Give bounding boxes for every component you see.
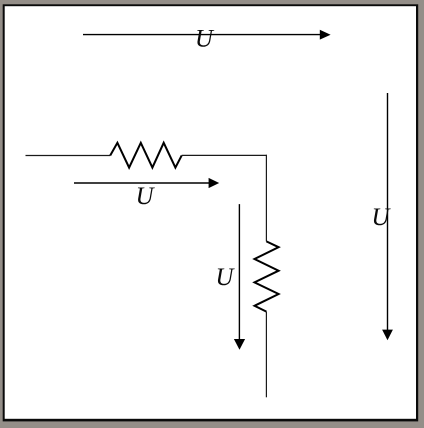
svg-text:U: U bbox=[372, 204, 392, 231]
svg-text:U: U bbox=[136, 183, 156, 210]
svg-text:U: U bbox=[195, 26, 215, 53]
voltage arrow U top bbox=[83, 30, 331, 40]
wire corner down to R2 bbox=[265, 155, 267, 242]
svg-text:U: U bbox=[215, 264, 235, 291]
voltage arrow U right side bbox=[382, 93, 393, 340]
voltage arrow U across R2 bbox=[234, 204, 245, 350]
wire R1 to corner bbox=[182, 154, 267, 156]
wire left of R1 bbox=[26, 155, 111, 157]
voltage arrow U across R1 bbox=[74, 178, 219, 188]
resistor R1 (horizontal) bbox=[110, 143, 182, 168]
resistor R2 (vertical) bbox=[255, 241, 279, 311]
wire below R2 bbox=[265, 312, 267, 398]
